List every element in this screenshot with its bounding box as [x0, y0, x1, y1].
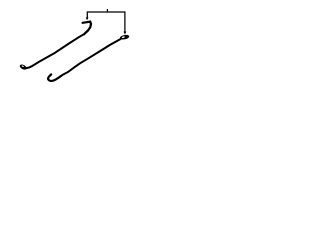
rod 1 end hook: [48, 74, 61, 81]
rod 2 end hook leg: [84, 24, 91, 35]
callout bracket: [87, 9, 125, 32]
left leader arrowhead: [86, 18, 89, 21]
right leader arrowhead: [124, 32, 127, 35]
rod 2 shaft: [26, 34, 85, 68]
rod 1 right end eyelet: [120, 34, 130, 40]
rod 1 (lower rod): [61, 39, 121, 76]
rod 2 left end loop: [19, 63, 28, 70]
rod 2 (upper rod): [83, 22, 91, 24]
